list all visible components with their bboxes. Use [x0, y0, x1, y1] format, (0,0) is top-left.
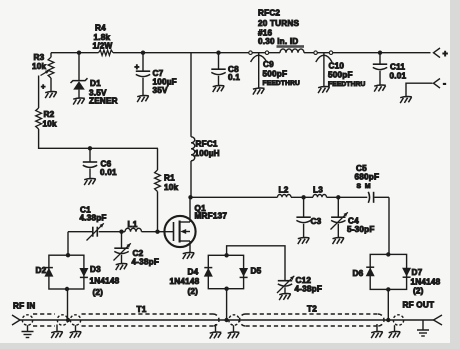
- svg-text:R1: R1: [164, 174, 175, 183]
- T2 left winding loop: [229, 315, 239, 325]
- transistor Q1 MRF137: [164, 216, 195, 247]
- feedthrough capacitor C10 500pF: [314, 51, 318, 55]
- variable capacitor C2 4-38pF: [121, 232, 123, 248]
- diode D6: [366, 266, 374, 268]
- svg-text:RFC1: RFC1: [196, 140, 218, 149]
- svg-text:+: +: [443, 49, 448, 59]
- wire: T-line center conductor: [20, 319, 434, 321]
- terminal: RF IN: [12, 315, 20, 325]
- node: C6 junction: [88, 146, 92, 150]
- ground (D1): [73, 98, 85, 105]
- svg-text:D7: D7: [412, 268, 423, 277]
- svg-text:R2: R2: [44, 110, 55, 119]
- ground (C3): [298, 238, 310, 245]
- inductor L3: [313, 194, 327, 197]
- zener diode D1 3.5V: [77, 51, 81, 55]
- svg-text:1N4148: 1N4148: [170, 277, 200, 286]
- ground (C7): [137, 96, 149, 103]
- wire: drain output line: [191, 196, 278, 198]
- terminal: V+ output: [434, 48, 441, 58]
- svg-text:L2: L2: [279, 186, 289, 195]
- diode D3: [79, 268, 88, 277]
- wire: main V+ rail: [51, 52, 99, 54]
- T1 left winding loops: [57, 315, 67, 325]
- svg-text:C10: C10: [329, 62, 345, 71]
- svg-text:1/2W: 1/2W: [93, 42, 113, 51]
- diode pair D2/D3 1N4148 loop: [49, 255, 84, 289]
- node: T1 input junction: [66, 318, 70, 322]
- node: C2 junction: [119, 230, 123, 234]
- svg-text:10k: 10k: [43, 120, 58, 129]
- diode D2: [45, 267, 53, 269]
- svg-text:D2: D2: [36, 266, 47, 275]
- diode D4: [204, 267, 212, 269]
- svg-text:FEEDTHRU: FEEDTHRU: [263, 80, 301, 87]
- feedthrough capacitor C9 500pF: [249, 51, 253, 55]
- capacitor C6 0.01: [89, 148, 91, 161]
- node: R1/gate junction: [155, 230, 159, 234]
- variable capacitor C1 4.38pF: [92, 227, 94, 237]
- svg-text:D1: D1: [90, 79, 101, 88]
- svg-text:D3: D3: [90, 265, 101, 274]
- ground (T2 left): [233, 325, 235, 332]
- inductor RFC2 20 TURNS #16: [277, 45, 305, 48]
- wire: R2 bottom to bias line: [39, 129, 158, 148]
- potentiometer R3 10k: [48, 57, 54, 78]
- svg-text:L1: L1: [128, 220, 138, 229]
- svg-text:0.1: 0.1: [228, 73, 240, 82]
- node: T1/T2 junction: [224, 318, 228, 322]
- capacitor C3: [303, 197, 305, 216]
- svg-text:1N4148: 1N4148: [411, 278, 441, 287]
- svg-text:(2): (2): [93, 288, 104, 297]
- wire: V- to ground: [406, 83, 433, 96]
- ground (C9): [253, 88, 265, 95]
- T2 right winding loop: [393, 315, 403, 325]
- inductor RFC1 100uH: [190, 53, 192, 137]
- capacitor C5 680pF SM: [368, 192, 369, 203]
- wire: clamp to T2: [387, 289, 389, 320]
- ground (C2): [116, 264, 128, 271]
- transformer T2 shield (dashed): [240, 314, 246, 326]
- wire: D4/D5 to C12: [227, 246, 285, 280]
- svg-text:35V: 35V: [153, 86, 169, 95]
- svg-text:S M: S M: [357, 183, 372, 190]
- svg-text:10k: 10k: [164, 183, 179, 192]
- svg-text:RF OUT: RF OUT: [403, 301, 435, 310]
- svg-text:C9: C9: [263, 60, 274, 69]
- ground (R3 bottom): [45, 92, 57, 99]
- ground (C12): [279, 294, 291, 301]
- node: C3 junction: [301, 195, 305, 199]
- svg-text:0.01: 0.01: [100, 168, 117, 177]
- svg-text:R4: R4: [95, 24, 106, 33]
- wire: C1 to D2/D3 clamp: [67, 232, 69, 255]
- svg-text:500pF: 500pF: [263, 70, 288, 79]
- svg-text:+: +: [41, 82, 46, 91]
- variable capacitor C4 5-30pF: [337, 197, 339, 216]
- ground (Q1 source): [183, 253, 195, 260]
- svg-text:0.30 in. ID: 0.30 in. ID: [258, 37, 298, 46]
- diode D5: [239, 268, 248, 277]
- node: C4 junction: [336, 195, 340, 199]
- resistor R4 1.8k 1/2W: [99, 50, 114, 55]
- svg-text:L3: L3: [313, 186, 323, 195]
- ground (RF OUT): [422, 320, 424, 330]
- diode pair D4/D5 1N4148 loop: [208, 255, 243, 288]
- ground (C10): [318, 87, 330, 94]
- svg-text:(2): (2): [188, 287, 199, 296]
- transformer T1 shield (dashed): [33, 313, 55, 315]
- inductor L2: [278, 194, 292, 197]
- svg-text:T2: T2: [307, 305, 317, 314]
- diode D7: [402, 268, 411, 277]
- wire: clamp to T1: [67, 289, 69, 320]
- svg-text:RFC2: RFC2: [258, 9, 280, 18]
- svg-text:D4: D4: [188, 268, 199, 277]
- ground (T2 right 2): [394, 325, 396, 331]
- svg-text:4-38pF: 4-38pF: [295, 285, 323, 294]
- ground (C8): [213, 86, 225, 93]
- svg-text:5-30pF: 5-30pF: [347, 225, 375, 234]
- svg-text:1N4148: 1N4148: [90, 277, 120, 286]
- node: drain junction: [188, 195, 192, 199]
- svg-text:MRF137: MRF137: [195, 212, 228, 221]
- svg-text:C3: C3: [311, 217, 322, 226]
- svg-text:D6: D6: [353, 269, 364, 278]
- resistor R2 10k: [36, 108, 42, 129]
- svg-text:FEEDTHRU: FEEDTHRU: [328, 81, 366, 88]
- svg-text:4-38pF: 4-38pF: [132, 258, 160, 267]
- svg-text:R3: R3: [34, 53, 45, 62]
- svg-text:C11: C11: [390, 63, 405, 72]
- ground (T2 right 1): [376, 324, 378, 332]
- diode pair D6/D7 1N4148 loop: [370, 254, 406, 289]
- svg-text:10k: 10k: [32, 62, 47, 71]
- svg-text:0.01: 0.01: [390, 72, 407, 81]
- terminal: V- output: [434, 79, 441, 89]
- wire: clamp to T1/T2 junction: [226, 289, 228, 320]
- wire: gate line: [99, 231, 125, 233]
- svg-text:T1: T1: [137, 305, 147, 314]
- ground (T1 right): [215, 324, 217, 332]
- wire: C5 to D6/D7 clamp: [388, 197, 390, 254]
- svg-text:20 TURNS: 20 TURNS: [258, 19, 300, 28]
- svg-text:4.38pF: 4.38pF: [80, 214, 107, 223]
- ground (T1 left 1): [56, 325, 58, 332]
- ground (V-): [400, 97, 412, 104]
- ground (RF IN shield): [27, 325, 29, 331]
- svg-text:+: +: [135, 63, 140, 72]
- capacitor C8 0.1: [216, 51, 220, 55]
- ground (C11): [374, 85, 386, 92]
- ground (C4): [333, 238, 345, 245]
- wire: R3 wiper down to R2: [38, 76, 40, 109]
- ground (T1 left 2): [75, 325, 77, 331]
- svg-text:(2): (2): [413, 287, 424, 296]
- ground (C6): [84, 179, 96, 186]
- variable capacitor C12 4-38pF: [278, 280, 292, 282]
- svg-text:RF IN: RF IN: [13, 302, 35, 311]
- capacitor C7 100uF 35V: [141, 51, 145, 55]
- svg-text:680pF: 680pF: [355, 173, 380, 182]
- svg-text:ZENER: ZENER: [89, 97, 118, 106]
- capacitor C11 0.01: [378, 51, 382, 55]
- inductor L1: [125, 228, 142, 231]
- svg-text:D5: D5: [251, 267, 262, 276]
- svg-text:-: -: [443, 79, 446, 89]
- svg-text:100µH: 100µH: [195, 149, 220, 158]
- svg-text:500pF: 500pF: [328, 71, 353, 80]
- node: T2 output junction: [386, 318, 390, 322]
- resistor R1 10k: [157, 148, 159, 170]
- terminal: RF OUT: [434, 315, 443, 325]
- T1 input winding loop: [22, 315, 32, 325]
